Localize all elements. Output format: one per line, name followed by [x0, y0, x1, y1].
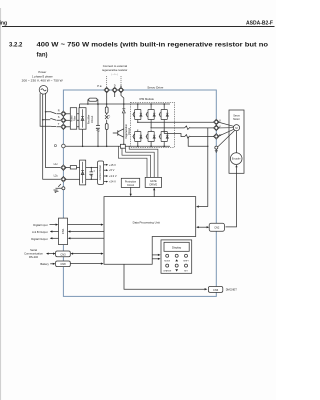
- wire: L2c to CP rectifier: [65, 178, 80, 180]
- terminal U: [214, 119, 220, 125]
- arrow DPU to display 1: [152, 254, 160, 256]
- button SET: [185, 264, 188, 267]
- wire: T terminal to noise filter: [65, 126, 70, 128]
- wire DPU to CN1 row 3 (arrow into CN1): [68, 237, 104, 239]
- wire: phase 2 down to L2c: [43, 120, 60, 180]
- arrowhead into encoder: [235, 165, 237, 168]
- svg-text:+3.3 V: +3.3 V: [109, 174, 117, 178]
- gate wire 1 (stair): [118, 146, 147, 177]
- connector CN8: [56, 261, 71, 267]
- earth ground symbol: [54, 184, 62, 193]
- svg-text:L2c: L2c: [54, 174, 59, 178]
- junction bus at P: [106, 103, 108, 105]
- current sensor on V: [185, 126, 190, 130]
- junction sense line: [207, 146, 208, 147]
- connector CN3: [56, 251, 71, 257]
- junction cap bottom: [91, 179, 92, 180]
- output +24 V: [104, 180, 117, 184]
- terminal W: [214, 134, 220, 140]
- svg-text:Encoder: Encoder: [232, 158, 241, 161]
- junction on phase 2 at S tap: [42, 119, 44, 121]
- shunt resistor on negative rail: [120, 144, 125, 148]
- svg-text:DMCNET: DMCNET: [226, 288, 238, 292]
- terminal L1c: [61, 165, 67, 171]
- arrowhead into DPU right edge: [196, 205, 199, 207]
- wire DPU to CN1 row 2 (arrow into CN1): [68, 230, 104, 232]
- button CHARGE: [166, 264, 169, 267]
- dashed lead to C: [120, 76, 122, 88]
- wire: W to motor: [218, 129, 234, 136]
- button MODE: [166, 254, 169, 257]
- transistor: IGBT V upper: [146, 108, 156, 122]
- wire CN1 to DPU row 1 (arrow into DPU): [68, 224, 104, 226]
- terminal C: [118, 87, 124, 93]
- capacitor: control power filter: [89, 168, 94, 180]
- connector CN2: [209, 223, 224, 231]
- svg-text:CHARGE: CHARGE: [163, 269, 172, 272]
- svg-text:400 W ~ 750 W models (with bui: 400 W ~ 750 W models (with built-in rege…: [37, 43, 269, 49]
- output +5 V: [104, 168, 115, 172]
- output +3.3 V: [104, 174, 117, 178]
- junction rail col W: [163, 146, 165, 148]
- small earth mark left of chassis terminal: [54, 145, 56, 147]
- label: Connect to external regenerative resistor: [102, 64, 128, 76]
- svg-text:Motor: Motor: [233, 118, 240, 121]
- control power block: [98, 161, 104, 184]
- svg-text:Display: Display: [172, 245, 182, 249]
- button UP: [175, 254, 178, 257]
- svg-text:Data Processing Unit: Data Processing Unit: [133, 221, 160, 225]
- junction bus col V: [150, 103, 152, 105]
- terminal P: [104, 87, 110, 93]
- svg-text:( —□— ): ( —□— ): [111, 73, 118, 76]
- dashed lead to P: [106, 76, 108, 88]
- svg-text:ing: ing: [0, 21, 7, 27]
- svg-text:CN3: CN3: [60, 252, 66, 256]
- svg-text:CN2: CN2: [214, 225, 220, 229]
- wire: S terminal to noise filter: [65, 119, 70, 121]
- junction bus right of resistor: [97, 103, 99, 105]
- wire: CP rectifier to control power (top): [86, 167, 98, 169]
- wire: CP rectifier to control power (bottom): [86, 178, 98, 180]
- junction cap top: [91, 167, 92, 168]
- wire: phase W output (with sensor gap): [164, 134, 215, 137]
- terminal R: [61, 111, 67, 117]
- svg-text:Filter: Filter: [74, 116, 77, 122]
- label: Power source: [22, 70, 63, 83]
- transistor: IGBT W lower: [159, 130, 169, 144]
- junction bus at C line: [123, 103, 125, 105]
- wire: P terminal drop to bus: [106, 92, 108, 104]
- stub: D terminal: [114, 92, 116, 97]
- junction U tap: [137, 122, 138, 123]
- svg-text:S: S: [58, 115, 60, 119]
- transistor: IGBT U lower: [133, 130, 143, 144]
- wire: L1c to fuse: [65, 167, 70, 169]
- diode: regeneration freewheel: [122, 109, 125, 113]
- wire: U to motor: [218, 122, 234, 126]
- svg-text:ASDA-B2-F: ASDA-B2-F: [246, 20, 273, 26]
- terminal S: [61, 118, 67, 124]
- arrow: DPU to gate drive: [153, 188, 155, 197]
- label: noise filter (vertical): [71, 115, 77, 122]
- gate drive box: [145, 177, 161, 187]
- arrowhead into CN6: [205, 288, 208, 290]
- transistor: regeneration IGBT: [113, 129, 124, 137]
- svg-text:Digital Output: Digital Output: [31, 237, 48, 241]
- wire: phase V output (with sensor gap): [151, 127, 215, 129]
- wire: current sense signal to DPU: [188, 128, 208, 207]
- wire: ground to motor: [218, 131, 235, 147]
- transistor: IGBT V lower: [146, 130, 156, 144]
- label: Servo Motor: [233, 115, 240, 121]
- gate wire 4 (stair): [129, 146, 158, 177]
- svg-text:Servo Drive: Servo Drive: [147, 86, 163, 90]
- wire DPU to CN6: [124, 264, 206, 289]
- svg-text:DRIVE: DRIVE: [149, 183, 157, 186]
- wire: phase 1 down to L1c: [46, 112, 60, 168]
- wire CN3 to DPU (double arrow): [71, 253, 104, 255]
- down triangle: [175, 269, 178, 271]
- wire: rectifier bottom to negative rail: [82, 129, 84, 146]
- svg-text:Digital Input: Digital Input: [33, 223, 47, 227]
- svg-text:L1c: L1c: [54, 162, 59, 166]
- svg-text:Battery: Battery: [40, 262, 49, 266]
- wire CN8 to DPU: [70, 263, 103, 265]
- servo motor box: [229, 110, 244, 173]
- svg-text:Circuit: Circuit: [127, 184, 134, 187]
- junction bus col W: [163, 103, 165, 105]
- protection circuit box: [121, 178, 139, 187]
- CP rectifier internal diode: [81, 162, 84, 183]
- transistor: IGBT U upper: [133, 108, 143, 122]
- IPM column U vertical: [137, 104, 139, 146]
- svg-text:+5 V: +5 V: [109, 168, 115, 172]
- resistor: soft-start: [89, 98, 97, 101]
- terminal T: [61, 124, 67, 130]
- connector CN1: [59, 218, 68, 245]
- wire: encoder cable to CN2: [226, 166, 237, 227]
- junction cap bottom: [97, 146, 99, 148]
- motor ground terminal: [215, 146, 218, 149]
- rectifier internal diode: [81, 109, 84, 127]
- current sensor on W: [185, 135, 190, 139]
- data processing unit box (L-shape): [104, 197, 196, 265]
- svg-text:regenerative resistor: regenerative resistor: [102, 68, 128, 72]
- svg-text:Circuit: Circuit: [128, 128, 131, 135]
- arrow CN1 to A&B output: [50, 230, 59, 232]
- svg-text:3.2.2: 3.2.2: [9, 43, 23, 49]
- label: GATE DRIVE: [149, 180, 157, 187]
- wire: phase line 1 (to R): [45, 93, 47, 112]
- junction bus col U: [137, 103, 139, 105]
- gate wire 2 (stair): [122, 148, 151, 177]
- arrow digital input to CN1: [50, 224, 59, 226]
- svg-text:M: M: [235, 126, 237, 130]
- motor M circle: [233, 125, 239, 131]
- junction on phase 1 at R tap: [45, 111, 47, 113]
- charge-lamp chain: resistor R, LED, resistor: [105, 104, 110, 146]
- wire: phase line 3 (to T): [40, 93, 50, 126]
- label: Rectifier Circuit (vertical): [87, 115, 94, 125]
- transistor: IGBT W upper: [159, 108, 169, 122]
- fuse box: [70, 166, 76, 169]
- breaker switch T: [50, 125, 60, 128]
- terminal L2c: [61, 177, 67, 183]
- wire: V to motor: [218, 127, 234, 129]
- svg-text:P ⊕: P ⊕: [97, 84, 102, 88]
- svg-text:U: U: [219, 118, 221, 122]
- svg-text:200 ~ 230 V, 400 W ~ 750 W: 200 ~ 230 V, 400 W ~ 750 W: [22, 79, 63, 83]
- arrow: protection circuit to DPU: [130, 187, 132, 196]
- up triangle: [175, 259, 178, 261]
- label: Regeneration Circuit (vertical): [125, 124, 131, 139]
- breaker switch S: [43, 118, 61, 120]
- wire: motor to encoder: [236, 131, 238, 153]
- svg-text:CN8: CN8: [60, 262, 66, 266]
- capacitor: DC bus electrolytic: [96, 104, 100, 146]
- svg-text:+24 V: +24 V: [109, 180, 116, 184]
- junction charge chain bottom: [106, 146, 108, 148]
- svg-text:RS-232: RS-232: [29, 255, 39, 259]
- wire: phase U output: [138, 121, 215, 123]
- wire: fuse to CP rectifier: [77, 167, 80, 169]
- IPM module dashed box: [131, 102, 175, 147]
- svg-text:Control Power: Control Power: [99, 165, 102, 180]
- arrow DPU to display 2: [152, 258, 160, 260]
- wire: rectifier top to DC bus: [79, 104, 81, 108]
- junction bus left of resistor: [87, 103, 89, 105]
- IPM column V vertical: [150, 104, 152, 146]
- breaker switch R: [46, 112, 61, 114]
- double arrow text to CN3: [46, 253, 56, 255]
- ground terminal circle: [62, 187, 65, 190]
- svg-text:CN1: CN1: [61, 228, 65, 234]
- servo drive enclosure (blue): [63, 90, 216, 296]
- page left-edge scan artifact: [0, 8, 2, 400]
- output +15 V: [104, 163, 117, 167]
- wire: DC bus positive rail: [80, 103, 170, 105]
- junction rail col V: [150, 146, 152, 148]
- chassis terminal on left edge: [62, 144, 66, 148]
- connector CN6: [208, 287, 222, 293]
- label: Protection Circuit: [125, 180, 137, 186]
- regeneration circuit line: [123, 104, 125, 144]
- noise filter block: [70, 108, 76, 130]
- encoder circle: [230, 153, 242, 165]
- display panel box: [161, 240, 192, 273]
- junction V tap: [150, 127, 151, 128]
- svg-text:Circuit: Circuit: [90, 116, 94, 124]
- gate wire 3 (stair): [126, 148, 155, 177]
- wire: R terminal to noise filter: [65, 113, 70, 115]
- power source symbol: [39, 86, 48, 95]
- junction cap top: [97, 103, 99, 105]
- wire: C terminal drop to regeneration circuit: [121, 92, 124, 104]
- svg-text:A & B Output: A & B Output: [32, 230, 48, 234]
- label: Serial Communication RS-232: [24, 248, 43, 259]
- motor ground symbol: [215, 149, 218, 152]
- button SHIFT: [185, 254, 188, 257]
- wire: phase line 2 (to S): [42, 94, 44, 120]
- junction rail col U: [137, 146, 139, 148]
- wire: DC bus negative rail (extends left to chassis terminal): [65, 145, 170, 147]
- wires: noise filter to rectifier: [77, 114, 79, 127]
- soft-start resistor bypass risers: [88, 100, 98, 104]
- wire DPU to CN2 (double arrow): [196, 226, 209, 228]
- button DOWN: [175, 264, 178, 267]
- svg-text:fan): fan): [37, 53, 48, 59]
- svg-text:CN6: CN6: [213, 288, 219, 292]
- terminal D: [112, 87, 118, 93]
- control power rectifier block: [80, 160, 86, 185]
- junction rail at rectifier drop: [82, 146, 84, 148]
- svg-text:SHIFT: SHIFT: [183, 261, 189, 263]
- svg-text:IPM Module: IPM Module: [140, 97, 155, 101]
- svg-text:MODE: MODE: [164, 261, 170, 263]
- svg-text:+15 V: +15 V: [109, 163, 116, 167]
- arrow CN1 to digital output: [50, 237, 59, 239]
- rectifier bridge block: [79, 108, 86, 130]
- junction regen line at shunt: [123, 144, 124, 145]
- arrow battery to CN8: [50, 263, 55, 265]
- terminal V: [214, 125, 220, 131]
- display screen box: [164, 242, 189, 251]
- svg-text:R: R: [58, 109, 60, 113]
- IPM column W vertical: [163, 104, 165, 146]
